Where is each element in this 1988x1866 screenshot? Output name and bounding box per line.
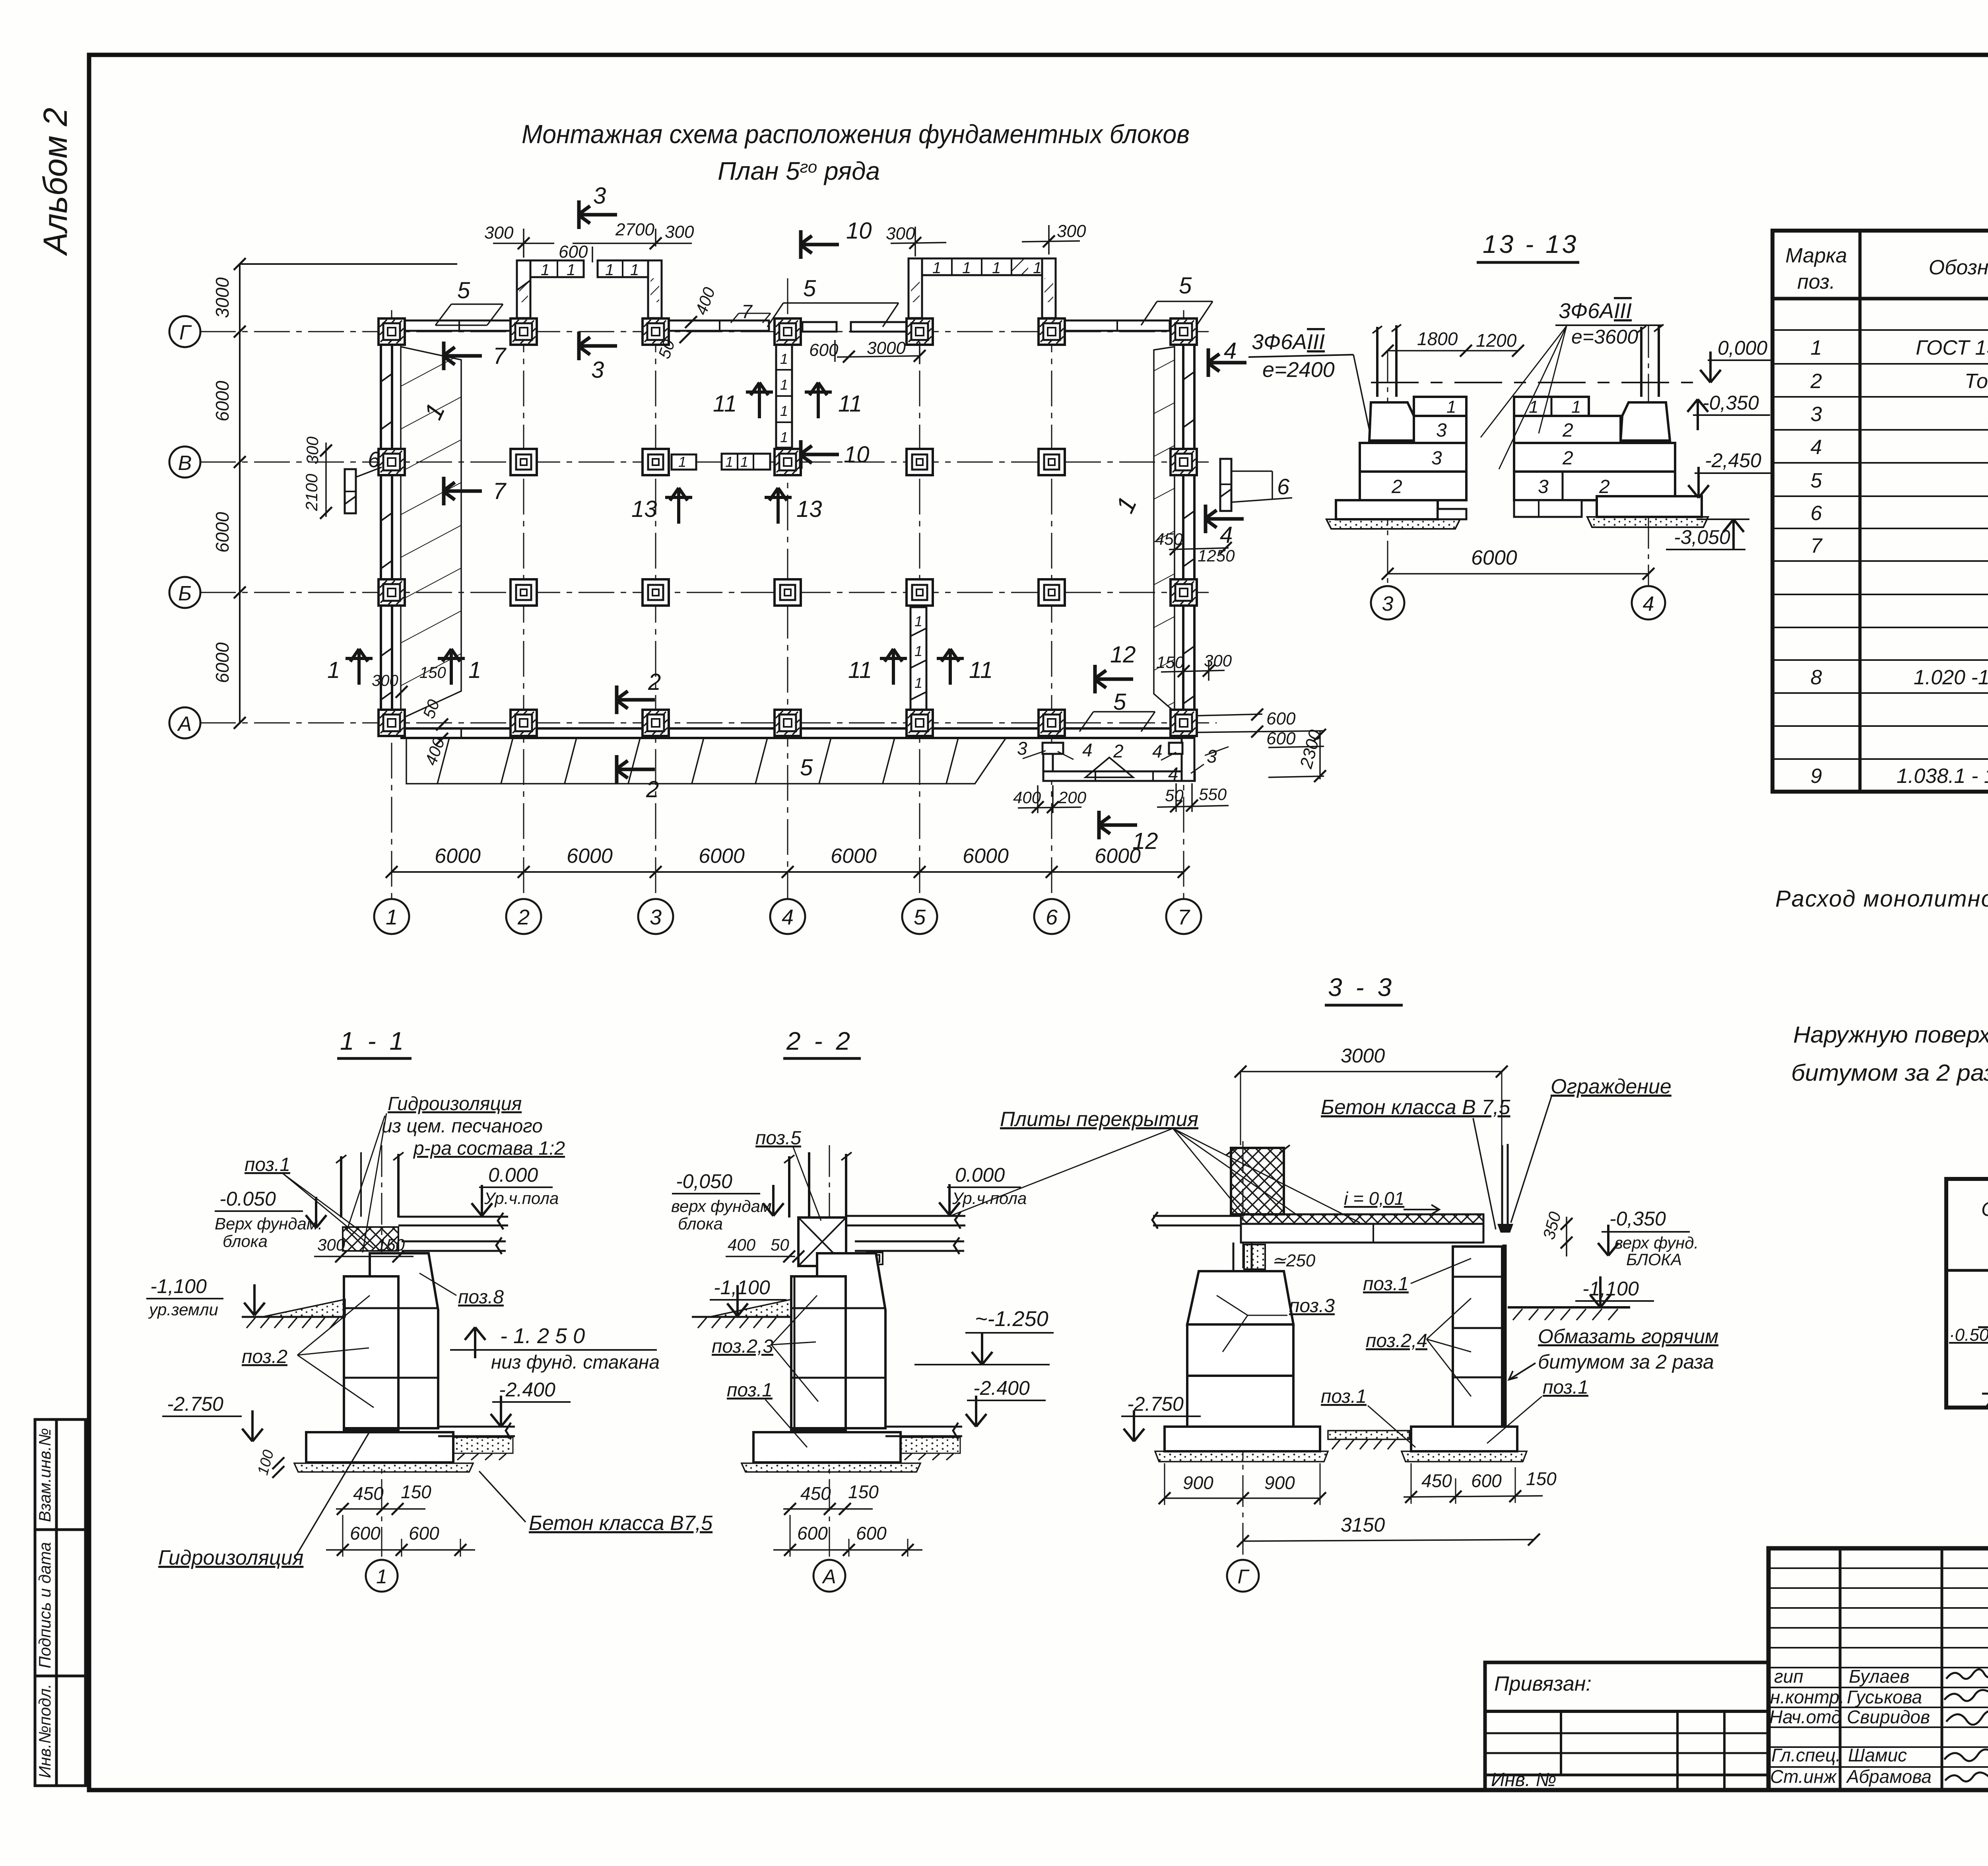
svg-text:блока: блока	[223, 1232, 268, 1250]
svg-text:-2.750: -2.750	[167, 1393, 223, 1415]
svg-text:1: 1	[567, 261, 575, 279]
right lower slab	[885, 1423, 962, 1439]
svg-text:Альбом 2: Альбом 2	[37, 108, 74, 256]
svg-text:В: В	[178, 452, 192, 475]
svg-text:То же: То же	[1965, 370, 1988, 393]
horizontal axis line В	[200, 462, 1209, 463]
left vertical dimension line	[239, 264, 241, 723]
svg-text:Гидроизоляция: Гидроизоляция	[158, 1546, 303, 1569]
svg-text:1200: 1200	[1476, 330, 1517, 351]
svg-text:150: 150	[1156, 653, 1184, 672]
svg-text:7: 7	[493, 478, 507, 504]
svg-text:2: 2	[1810, 370, 1822, 393]
ground line left with hatch	[262, 1299, 345, 1317]
svg-text:поз.2: поз.2	[242, 1346, 287, 1367]
svg-text:1: 1	[678, 454, 686, 470]
svg-text:2100: 2100	[302, 474, 321, 511]
svg-text:2: 2	[517, 905, 530, 929]
center base slab	[1165, 1427, 1320, 1451]
right lower slab	[438, 1423, 515, 1439]
axis line Г	[1242, 1141, 1244, 1557]
svg-text:11: 11	[969, 657, 993, 683]
svg-text:-2,450: -2,450	[1705, 449, 1761, 472]
svg-text:5: 5	[457, 278, 470, 303]
svg-text:Подпись и дата: Подпись и дата	[35, 1542, 54, 1668]
wall on Г between piece and porch 2	[851, 322, 908, 332]
block stack поз.2	[344, 1276, 398, 1428]
svg-text:2: 2	[1562, 420, 1573, 441]
svg-text:1: 1	[1446, 397, 1456, 417]
vertical axis line 7	[1183, 310, 1184, 899]
foundation cup поз.8	[370, 1253, 438, 1428]
svg-text:низ фунд. стакана: низ фунд. стакана	[491, 1352, 660, 1373]
svg-text:12: 12	[1110, 642, 1136, 668]
svg-text:-1,100: -1,100	[150, 1275, 207, 1297]
svg-text:Свиридов: Свиридов	[1847, 1707, 1930, 1727]
svg-text:1: 1	[780, 377, 788, 393]
vertical axis line 3	[655, 262, 656, 899]
svg-text:13: 13	[796, 496, 822, 522]
svg-text:200: 200	[1058, 788, 1087, 807]
ground left	[710, 1299, 791, 1317]
column wall above floor	[789, 1152, 846, 1217]
svg-text:150: 150	[1526, 1468, 1557, 1489]
svg-text:Г: Г	[179, 321, 192, 344]
svg-text:600: 600	[809, 340, 839, 360]
block 6 detail left of plan	[345, 469, 356, 513]
svg-text:3: 3	[1811, 403, 1822, 426]
svg-text:3: 3	[593, 183, 606, 209]
svg-text:400: 400	[1013, 788, 1041, 807]
svg-text:600: 600	[1266, 729, 1296, 748]
svg-text:1: 1	[932, 259, 941, 277]
svg-text:900: 900	[1264, 1472, 1295, 1493]
svg-text:3000: 3000	[867, 338, 906, 358]
svg-text:из цем. песчаного: из цем. песчаного	[382, 1116, 543, 1137]
svg-text:300: 300	[1057, 221, 1086, 241]
svg-text:Гуськова: Гуськова	[1847, 1687, 1922, 1707]
svg-text:1: 1	[914, 643, 922, 659]
svg-text:3 - 3: 3 - 3	[1328, 973, 1395, 1002]
svg-text:2: 2	[1113, 741, 1124, 761]
svg-text:150: 150	[848, 1482, 879, 1502]
svg-text:Обозначение: Обозначение	[1929, 256, 1988, 279]
svg-text:6: 6	[1277, 474, 1290, 499]
svg-text:е=3600: е=3600	[1571, 326, 1638, 348]
svg-text:верх фунд.: верх фунд.	[1614, 1233, 1699, 1252]
svg-text:300: 300	[665, 222, 694, 242]
circle 4	[1632, 586, 1665, 619]
ground right with hatch	[1508, 1306, 1630, 1309]
svg-text:А: А	[177, 713, 192, 736]
svg-text:600: 600	[409, 1523, 439, 1544]
level -1.250 низ фунд стакана	[465, 1327, 485, 1358]
svg-text:2: 2	[1391, 476, 1402, 497]
svg-text:1: 1	[914, 675, 922, 691]
svg-text:1: 1	[1571, 397, 1581, 417]
svg-text:2: 2	[1562, 448, 1573, 469]
axis line	[381, 1145, 382, 1557]
axis bubble Б	[169, 577, 200, 608]
svg-text:Булаев: Булаев	[1849, 1666, 1910, 1687]
svg-text:7: 7	[742, 301, 753, 322]
svg-text:поз.1: поз.1	[1321, 1386, 1367, 1407]
svg-text:1: 1	[468, 657, 481, 683]
svg-text:4: 4	[1168, 763, 1178, 784]
svg-text:3: 3	[591, 357, 604, 383]
svg-text:~-1.250: ~-1.250	[975, 1307, 1048, 1331]
svg-text:Абрамова: Абрамова	[1846, 1766, 1932, 1787]
svg-text:БЛОКА: БЛОКА	[1626, 1250, 1682, 1269]
svg-text:1.020 -1/83 в.1-1: 1.020 -1/83 в.1-1	[1914, 666, 1988, 689]
svg-text:битумом за 2 раза: битумом за 2 раза	[1538, 1351, 1714, 1373]
svg-text:Монтажная схема расположения: Монтажная схема расположения фундаментны…	[522, 119, 1190, 149]
footings row В	[379, 449, 405, 475]
svg-text:-2.400: -2.400	[973, 1377, 1030, 1399]
zero level dashed line	[1371, 382, 1701, 383]
svg-text:6000: 6000	[831, 845, 877, 868]
svg-text:4: 4	[1152, 741, 1163, 761]
svg-text:ГОСТ 13579 -78: ГОСТ 13579 -78	[1916, 336, 1988, 359]
svg-text:6: 6	[1811, 502, 1822, 525]
svg-text:1: 1	[327, 657, 340, 683]
right wall line 7	[1183, 332, 1194, 723]
svg-text:450: 450	[353, 1483, 384, 1504]
horizontal axis line Б	[200, 592, 1209, 593]
svg-text:1: 1	[780, 429, 788, 445]
svg-text:1: 1	[1529, 397, 1538, 417]
axis line	[829, 1145, 830, 1557]
svg-text:-3,050: -3,050	[1674, 526, 1730, 548]
svg-text:4: 4	[1224, 338, 1237, 364]
svg-text:Б: Б	[178, 582, 192, 605]
svg-text:150: 150	[401, 1482, 431, 1502]
svg-text:1: 1	[725, 454, 733, 470]
svg-text:поз.1: поз.1	[245, 1154, 290, 1175]
svg-text:1: 1	[780, 403, 788, 419]
svg-text:-0.050: -0.050	[219, 1188, 276, 1210]
wall on Г between 1 and 2	[402, 320, 516, 331]
hatched zone 1 along right wall	[1154, 347, 1175, 712]
svg-text:300: 300	[372, 672, 398, 689]
left base slab	[1336, 500, 1438, 519]
svg-text:13 - 13: 13 - 13	[1483, 230, 1578, 258]
svg-text:поз.5: поз.5	[755, 1128, 801, 1149]
svg-text:4: 4	[1643, 592, 1654, 616]
base slab	[753, 1432, 901, 1462]
svg-text:Бетон класса В 7,5: Бетон класса В 7,5	[1321, 1096, 1511, 1119]
svg-text:4: 4	[782, 905, 794, 929]
svg-text:- 1. 2 5 0: - 1. 2 5 0	[500, 1324, 585, 1348]
svg-text:3: 3	[1017, 738, 1027, 759]
interior wall on line 4 from Г to В	[776, 344, 792, 448]
svg-text:Расход монолитного бетона к: Расход монолитного бетона класса В7,5 - …	[1775, 885, 1988, 912]
svg-text:11: 11	[848, 657, 872, 683]
section arrows К2 pair	[615, 685, 655, 714]
svg-text:поз.1: поз.1	[727, 1380, 773, 1401]
svg-text:Ограждение: Ограждение	[1551, 1075, 1672, 1098]
svg-text:Наружную поверхность фундамент: Наружную поверхность фундаментных блоков…	[1793, 1022, 1988, 1048]
svg-text:11: 11	[713, 391, 737, 417]
svg-text:600: 600	[1471, 1470, 1502, 1491]
svg-text:2: 2	[648, 669, 661, 695]
svg-text:300: 300	[303, 436, 322, 464]
svg-text:Ур.ч.пола: Ур.ч.пола	[952, 1189, 1027, 1208]
svg-text:поз.: поз.	[1797, 270, 1835, 293]
svg-text:3: 3	[1436, 420, 1447, 441]
bottom dimension line 6x6000	[392, 871, 1184, 873]
svg-text:6: 6	[368, 447, 381, 472]
svg-text:1: 1	[376, 1565, 387, 1588]
svg-text:битумом за 2 раза до отм.: битумом за 2 раза до отм. -1.000	[1791, 1060, 1988, 1086]
svg-text:блока: блока	[678, 1214, 723, 1233]
bottom axis bubbles 1-7	[374, 899, 1201, 934]
svg-text:-1,100: -1,100	[714, 1276, 770, 1299]
svg-text:6000: 6000	[212, 381, 233, 421]
svg-text:3150: 3150	[1341, 1514, 1385, 1536]
svg-text:1: 1	[1811, 336, 1822, 359]
svg-text:Инв.№подл.: Инв.№подл.	[35, 1684, 54, 1778]
svg-text:Взам.инв.№: Взам.инв.№	[35, 1428, 54, 1522]
hatched column	[1231, 1148, 1284, 1214]
right foundation cup	[1621, 402, 1670, 441]
svg-text:1: 1	[541, 261, 549, 279]
svg-text:8: 8	[1811, 666, 1822, 689]
svg-text:2700: 2700	[615, 220, 654, 239]
floor slabs right	[846, 1212, 965, 1229]
svg-text:5: 5	[803, 276, 816, 301]
svg-text:50: 50	[771, 1235, 789, 1254]
svg-text:150: 150	[419, 664, 446, 682]
svg-text:5: 5	[800, 755, 813, 781]
axis bubble Г	[169, 316, 200, 347]
привязан attachment table	[1485, 1662, 1769, 1790]
svg-text:0,000: 0,000	[1718, 337, 1767, 359]
hatched zone 1 along left wall	[401, 347, 461, 719]
svg-text:450: 450	[800, 1483, 831, 1504]
svg-text:5: 5	[1811, 469, 1823, 492]
bottom-right extension walls	[1043, 743, 1063, 754]
block stack	[791, 1276, 846, 1428]
svg-text:4: 4	[1082, 740, 1093, 760]
dim 2100 300 for block 6	[325, 443, 327, 517]
svg-text:Бетон класса В7,5: Бетон класса В7,5	[529, 1512, 713, 1535]
svg-text:6000: 6000	[699, 845, 745, 868]
svg-text:10: 10	[846, 218, 872, 244]
svg-text:Гидроизоляция: Гидроизоляция	[388, 1093, 522, 1115]
svg-text:1: 1	[780, 351, 788, 367]
dims 600 600 2300 right of extension	[1197, 714, 1262, 716]
svg-text:2: 2	[1599, 476, 1610, 497]
svg-text:Инв. №: Инв. №	[1491, 1769, 1556, 1790]
wall on Г between 3 and 4	[669, 320, 769, 331]
porch 1 right wall on line 3	[648, 260, 662, 318]
porch 2 left wall on line 5	[909, 258, 922, 318]
svg-text:6000: 6000	[435, 845, 481, 868]
left slab	[1152, 1212, 1241, 1229]
svg-text:Нач.отд: Нач.отд	[1769, 1707, 1841, 1727]
svg-text:1: 1	[1033, 259, 1042, 277]
svg-text:7: 7	[493, 343, 507, 369]
svg-text:1: 1	[740, 454, 748, 470]
right column stub	[1641, 325, 1659, 397]
svg-text:3: 3	[1207, 746, 1217, 767]
svg-text:гип: гип	[1774, 1666, 1804, 1687]
svg-text:1: 1	[630, 261, 639, 279]
svg-text:6000: 6000	[963, 845, 1009, 868]
svg-text:Марка: Марка	[1785, 244, 1847, 267]
svg-text:3Ф6АIII: 3Ф6АIII	[1559, 299, 1632, 323]
section arrows К4 right side	[1207, 348, 1246, 377]
svg-text:3: 3	[1382, 592, 1394, 616]
svg-text:150: 150	[377, 1235, 405, 1254]
vertical axis line 4	[787, 278, 788, 899]
svg-text:450: 450	[1421, 1470, 1452, 1491]
circle А	[813, 1560, 845, 1592]
svg-text:1: 1	[962, 259, 971, 277]
axis bubble А	[169, 707, 200, 738]
footings row Б	[379, 579, 405, 606]
section arrows К3	[577, 200, 617, 229]
svg-text:1: 1	[914, 613, 922, 629]
svg-text:900: 900	[1183, 1472, 1213, 1493]
svg-text:н.контр.: н.контр.	[1770, 1687, 1844, 1707]
svg-text:3: 3	[650, 905, 662, 929]
svg-text:5: 5	[914, 905, 926, 929]
svg-text:11: 11	[838, 391, 862, 417]
signature squiggles	[1944, 1669, 1988, 1781]
svg-text:1 - 1: 1 - 1	[340, 1027, 407, 1055]
svg-text:поз.8: поз.8	[458, 1287, 504, 1308]
svg-text:План 5го ряда: План 5го ряда	[718, 157, 880, 185]
floor band crosshatched	[1241, 1214, 1483, 1224]
svg-text:600: 600	[797, 1523, 828, 1544]
footings row Г	[379, 318, 405, 345]
right base slab	[1597, 496, 1702, 517]
svg-text:верх фундам.: верх фундам.	[671, 1197, 776, 1216]
svg-text:600: 600	[1266, 709, 1296, 728]
svg-text:-0,350: -0,350	[1609, 1208, 1666, 1230]
svg-text:р-ра состава 1:2: р-ра состава 1:2	[413, 1138, 565, 1159]
circle Г	[1227, 1560, 1259, 1592]
svg-text:Ст.инж: Ст.инж	[1770, 1766, 1837, 1787]
svg-text:Схема: Схема	[1981, 1198, 1988, 1220]
svg-text:1: 1	[992, 259, 1001, 277]
svg-text:3000: 3000	[212, 277, 233, 318]
svg-text:12: 12	[1132, 828, 1158, 854]
hatched band 5 below bottom wall	[406, 738, 1006, 784]
svg-text:-2.400: -2.400	[499, 1379, 555, 1401]
svg-text:1.038.1 - 1.1 090000: 1.038.1 - 1.1 090000	[1897, 765, 1988, 788]
svg-text:поз.2,3: поз.2,3	[712, 1336, 773, 1357]
block 6 detail right of plan	[1220, 459, 1231, 511]
left stack blocks	[1414, 397, 1466, 416]
svg-text:400: 400	[728, 1235, 756, 1254]
svg-text:Гл.спец.: Гл.спец.	[1771, 1745, 1841, 1765]
left sidebar stamp cells	[35, 1419, 85, 1786]
svg-text:i = 0,01: i = 0,01	[1344, 1188, 1404, 1209]
short wall piece 7 right of column 4	[802, 322, 837, 332]
svg-text:2 - 2: 2 - 2	[786, 1027, 853, 1055]
svg-text:поз.1: поз.1	[1363, 1274, 1409, 1295]
axis bubble В	[169, 447, 200, 478]
svg-text:600: 600	[350, 1523, 381, 1544]
porch 2 top wall with blocks	[922, 258, 1042, 275]
svg-text:2: 2	[646, 777, 659, 802]
svg-text:300: 300	[886, 224, 915, 243]
svg-text:6: 6	[1046, 905, 1058, 929]
circle 1	[366, 1560, 398, 1592]
svg-text:6000: 6000	[1471, 546, 1517, 569]
base slab	[306, 1432, 453, 1462]
svg-text:поз.2,4: поз.2,4	[1366, 1330, 1427, 1351]
svg-text:550: 550	[1199, 785, 1227, 804]
svg-text:е=2400: е=2400	[1262, 358, 1335, 382]
svg-text:-2.750: -2.750	[1127, 1393, 1184, 1415]
vertical axis line 2	[523, 262, 524, 899]
svg-text:Ур.ч.пола: Ур.ч.пола	[484, 1189, 559, 1208]
crossed monolith block	[798, 1217, 846, 1266]
svg-text:≃250: ≃250	[1272, 1251, 1316, 1270]
fence post	[1502, 1144, 1508, 1224]
svg-text:3: 3	[1538, 476, 1549, 497]
svg-text:7: 7	[1178, 905, 1190, 929]
svg-text:поз.3: поз.3	[1289, 1295, 1335, 1316]
svg-text:10: 10	[844, 442, 870, 468]
svg-text:Плиты перекрытия: Плиты перекрытия	[1000, 1108, 1198, 1131]
svg-text:0.000: 0.000	[955, 1164, 1005, 1186]
porch 2 right wall on line 6	[1042, 258, 1056, 318]
svg-text:3000: 3000	[1341, 1045, 1385, 1067]
svg-text:3: 3	[1431, 448, 1442, 469]
horizontal axis line А	[200, 722, 1217, 724]
vertical axis line 5	[919, 262, 920, 899]
section arrows К7 upper/lower	[442, 342, 482, 370]
right stack blocks	[1514, 397, 1589, 416]
floor slabs right	[398, 1213, 508, 1229]
svg-text:300: 300	[484, 223, 514, 243]
svg-text:3Ф6АIII: 3Ф6АIII	[1252, 330, 1325, 354]
svg-text:-0,050: -0,050	[676, 1170, 732, 1192]
right block stack	[1453, 1247, 1502, 1427]
wall on Г between 6 and 7	[1065, 320, 1170, 331]
svg-text:поз.1: поз.1	[1543, 1377, 1588, 1398]
svg-text:5: 5	[1179, 273, 1192, 299]
svg-text:1800: 1800	[1417, 328, 1458, 349]
right base slab	[1411, 1427, 1517, 1451]
svg-text:Шамис: Шамис	[1848, 1745, 1907, 1765]
svg-text:ур.земли: ур.земли	[148, 1300, 218, 1319]
svg-text:А: А	[821, 1565, 836, 1588]
svg-text:4: 4	[1811, 436, 1822, 459]
vertical axis line 1	[391, 310, 392, 899]
interior wall on line 5 from Б to А	[911, 607, 926, 723]
svg-text:1: 1	[386, 905, 398, 929]
left column stub	[1377, 325, 1396, 397]
svg-text:6000: 6000	[212, 642, 233, 683]
svg-text:9: 9	[1811, 765, 1822, 788]
svg-text:0.000: 0.000	[488, 1164, 538, 1186]
svg-text:1: 1	[605, 261, 614, 279]
section arrows К10	[799, 230, 839, 259]
center foundation cup pyramid	[1187, 1271, 1293, 1324]
horizontal axis line Г	[200, 331, 1209, 332]
foundation cup	[817, 1253, 885, 1428]
column wall above floor	[341, 1154, 398, 1217]
circle 3	[1371, 586, 1404, 619]
svg-text:Обмазать горячим: Обмазать горячим	[1538, 1325, 1718, 1348]
interior wall on В between 3 and 4	[672, 454, 696, 470]
